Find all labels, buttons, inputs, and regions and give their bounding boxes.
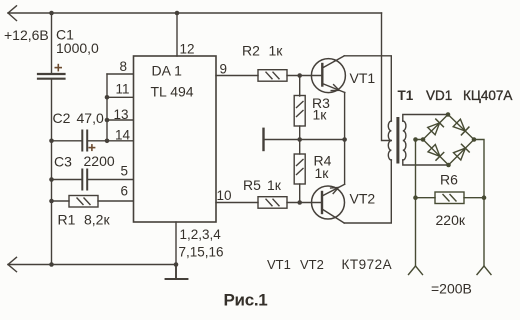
wire VT2 collector to transformer bottom (344, 160, 391, 223)
node mid-R3R4 (297, 137, 302, 142)
wire VT1 collector to transformer top (344, 56, 391, 121)
svg-text:DA 1: DA 1 (152, 63, 183, 79)
wire R3 bottom (299, 126, 301, 140)
ground (166, 265, 188, 280)
resistor R3 (294, 96, 305, 127)
wire C3 to pin 5 (52, 179, 82, 181)
svg-text:VT2: VT2 (300, 257, 324, 272)
wire bridge left output (416, 140, 424, 267)
svg-text:47,0: 47,0 (77, 110, 104, 126)
svg-text:2200: 2200 (84, 153, 115, 169)
svg-text:C3: C3 (54, 153, 72, 169)
svg-text:11: 11 (116, 81, 130, 96)
wire left pin bus (106, 74, 108, 141)
svg-text:TL 494: TL 494 (151, 84, 194, 100)
node bridge left (421, 137, 426, 142)
node bus-pin11 (105, 95, 110, 100)
svg-text:12: 12 (180, 42, 195, 57)
transformer T1 core (396, 119, 399, 163)
transistor Q1 VT1 (311, 56, 345, 93)
svg-text:=200В: =200В (431, 281, 472, 297)
transistor Q2 VT2 (312, 184, 345, 223)
wire mid common line (264, 139, 345, 141)
op-amp U1 TL494 IC body (134, 56, 217, 222)
wire C2 to pin 14 (52, 140, 82, 142)
wire R4 bottom (299, 184, 301, 203)
capacitor C2 (82, 131, 87, 151)
wire secondary top to bridge (403, 115, 448, 122)
svg-text:1к: 1к (267, 177, 282, 193)
svg-text:+12,6В: +12,6В (4, 27, 49, 43)
svg-text:R5: R5 (243, 177, 261, 193)
svg-text:6: 6 (121, 184, 129, 199)
node bridge right (472, 137, 477, 142)
node rail-C2 (49, 139, 54, 144)
node bus-pin13 (105, 118, 110, 123)
svg-text:14: 14 (115, 128, 131, 143)
resistor R5 (258, 197, 287, 209)
node bridge bottom (446, 163, 451, 168)
resistor R1 (69, 196, 98, 208)
svg-text:7,15,16: 7,15,16 (179, 245, 224, 260)
diode VD1 bridge frame (423, 115, 474, 166)
svg-text:13: 13 (114, 107, 129, 122)
wire secondary bottom to bridge (403, 160, 449, 165)
wire bottom rail (8, 264, 176, 266)
capacitor C3 (82, 170, 87, 190)
wire R6 right (464, 197, 484, 199)
wire R1 to pin 6 (52, 200, 70, 202)
capacitor C1 (38, 74, 65, 79)
node common terminal bar (262, 129, 264, 150)
transformer T1 primary (388, 121, 391, 160)
resistor R2 (258, 70, 287, 82)
svg-text:5: 5 (121, 164, 129, 179)
node top rail / left rail junction (49, 11, 54, 16)
wire +12V to center tap (382, 13, 392, 141)
node pin10-R4 (297, 200, 302, 205)
svg-text:1к: 1к (315, 165, 330, 181)
wire R4 top (299, 140, 301, 155)
resistor R4 (294, 154, 305, 184)
node rail-C3 (49, 177, 54, 182)
svg-text:1,2,3,4: 1,2,3,4 (180, 227, 222, 242)
wire pin 8 stub (107, 73, 134, 75)
svg-text:VT1: VT1 (267, 257, 291, 272)
node pin9-R3 (297, 73, 302, 78)
plus sign C2 (88, 144, 95, 151)
svg-text:КТ972А: КТ972А (342, 257, 393, 272)
wire IC ground (175, 222, 177, 265)
diode bridge bottom-left (428, 145, 444, 161)
wire R6 left (416, 197, 436, 199)
svg-text:VT2: VT2 (350, 191, 376, 207)
arrow bottom-left (8, 257, 17, 271)
node bridge top (446, 112, 451, 117)
svg-text:10: 10 (217, 188, 232, 203)
diode bridge top-left (428, 119, 444, 135)
wire left rail lower (51, 80, 53, 265)
svg-text:Рис.1: Рис.1 (224, 291, 268, 310)
node mid-emitters (342, 137, 347, 142)
arrow top-left input (8, 6, 17, 21)
svg-text:1к: 1к (269, 43, 284, 59)
wire pin 9 (216, 75, 258, 77)
node rail-bottom (49, 262, 54, 267)
wire pin 11 stub (107, 96, 134, 98)
svg-text:КЦ407А: КЦ407А (463, 88, 512, 103)
diode bridge top-right (453, 119, 469, 135)
node R6 right (482, 195, 487, 200)
resistor R6 (435, 192, 464, 204)
wire pin 10 (216, 202, 258, 204)
svg-text:1к: 1к (313, 107, 328, 123)
svg-text:R2: R2 (242, 43, 260, 59)
wire R5 to VT2 base (287, 202, 322, 204)
wire pin 13 stub (107, 119, 134, 121)
node R6 left (413, 195, 418, 200)
svg-text:220к: 220к (436, 212, 466, 228)
svg-text:8: 8 (120, 59, 128, 74)
svg-text:R1: R1 (58, 212, 76, 228)
wire R2 to VT1 base (287, 75, 322, 77)
wire R3 top (299, 76, 301, 97)
node top rail / pin12 junction (175, 11, 180, 16)
wire left rail upper (51, 13, 53, 74)
svg-text:1000,0: 1000,0 (56, 40, 99, 56)
output arrow right (477, 266, 491, 275)
svg-text:8,2к: 8,2к (84, 212, 110, 228)
node bottom rail / IC ground (174, 262, 179, 267)
output arrow left (409, 266, 423, 275)
node bridge left corner bend (413, 137, 418, 142)
svg-text:VD1: VD1 (426, 88, 452, 103)
svg-text:C2: C2 (53, 110, 71, 126)
svg-text:9: 9 (220, 62, 228, 77)
wire pin 12 (176, 13, 178, 56)
transformer T1 secondary (403, 121, 406, 160)
svg-text:R6: R6 (440, 172, 458, 188)
wire emitters join (344, 93, 346, 185)
diode bridge bottom-right (454, 144, 470, 160)
wire top +12V rail (8, 12, 382, 14)
plus sign C1 (55, 64, 63, 72)
svg-text:VT1: VT1 (350, 70, 376, 86)
node rail-R1 (49, 199, 54, 204)
node bus-pin14 (105, 139, 110, 144)
svg-text:T1: T1 (398, 88, 414, 103)
wire bridge right output (474, 140, 484, 267)
